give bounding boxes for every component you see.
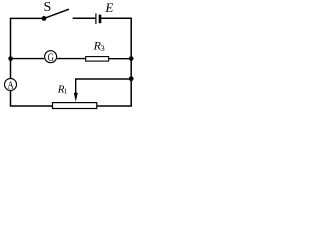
node left junction dot [8,56,13,61]
node right junction dot (middle branch) [129,56,134,61]
svg-text:A: A [7,80,13,92]
rheostat slider arrowhead [74,93,78,102]
wire R3 to right node [109,58,132,60]
wire battery to top-right corner and right side down to bottom-right corner [97,18,132,106]
battery E long thin plate [95,13,97,24]
svg-text:3: 3 [101,43,105,53]
svg-text:G: G [47,52,54,64]
wire top segment between switch gap and battery [73,17,96,19]
svg-text:1: 1 [64,87,68,96]
battery E short thick plate [99,15,102,24]
ammeter A [5,79,17,91]
rheostat slider wire (horizontal to right node) [76,78,132,80]
galvanometer G [45,51,57,63]
svg-text:S: S [44,0,52,15]
middle branch wire left (node to galvanometer) [11,58,45,60]
switch S lever (open) [44,9,69,18]
wire top-left to ammeter (left side) [11,18,45,78]
switch S pivot dot [42,16,47,21]
wire galvanometer to R3 [57,58,86,60]
rheostat slider arrow stem [75,78,77,95]
resistor R3 box [86,57,109,62]
svg-text:E: E [104,0,113,15]
rheostat R1 box [53,103,97,109]
wire left-bottom segment [11,91,53,106]
node right junction dot (slider branch) [129,76,134,81]
